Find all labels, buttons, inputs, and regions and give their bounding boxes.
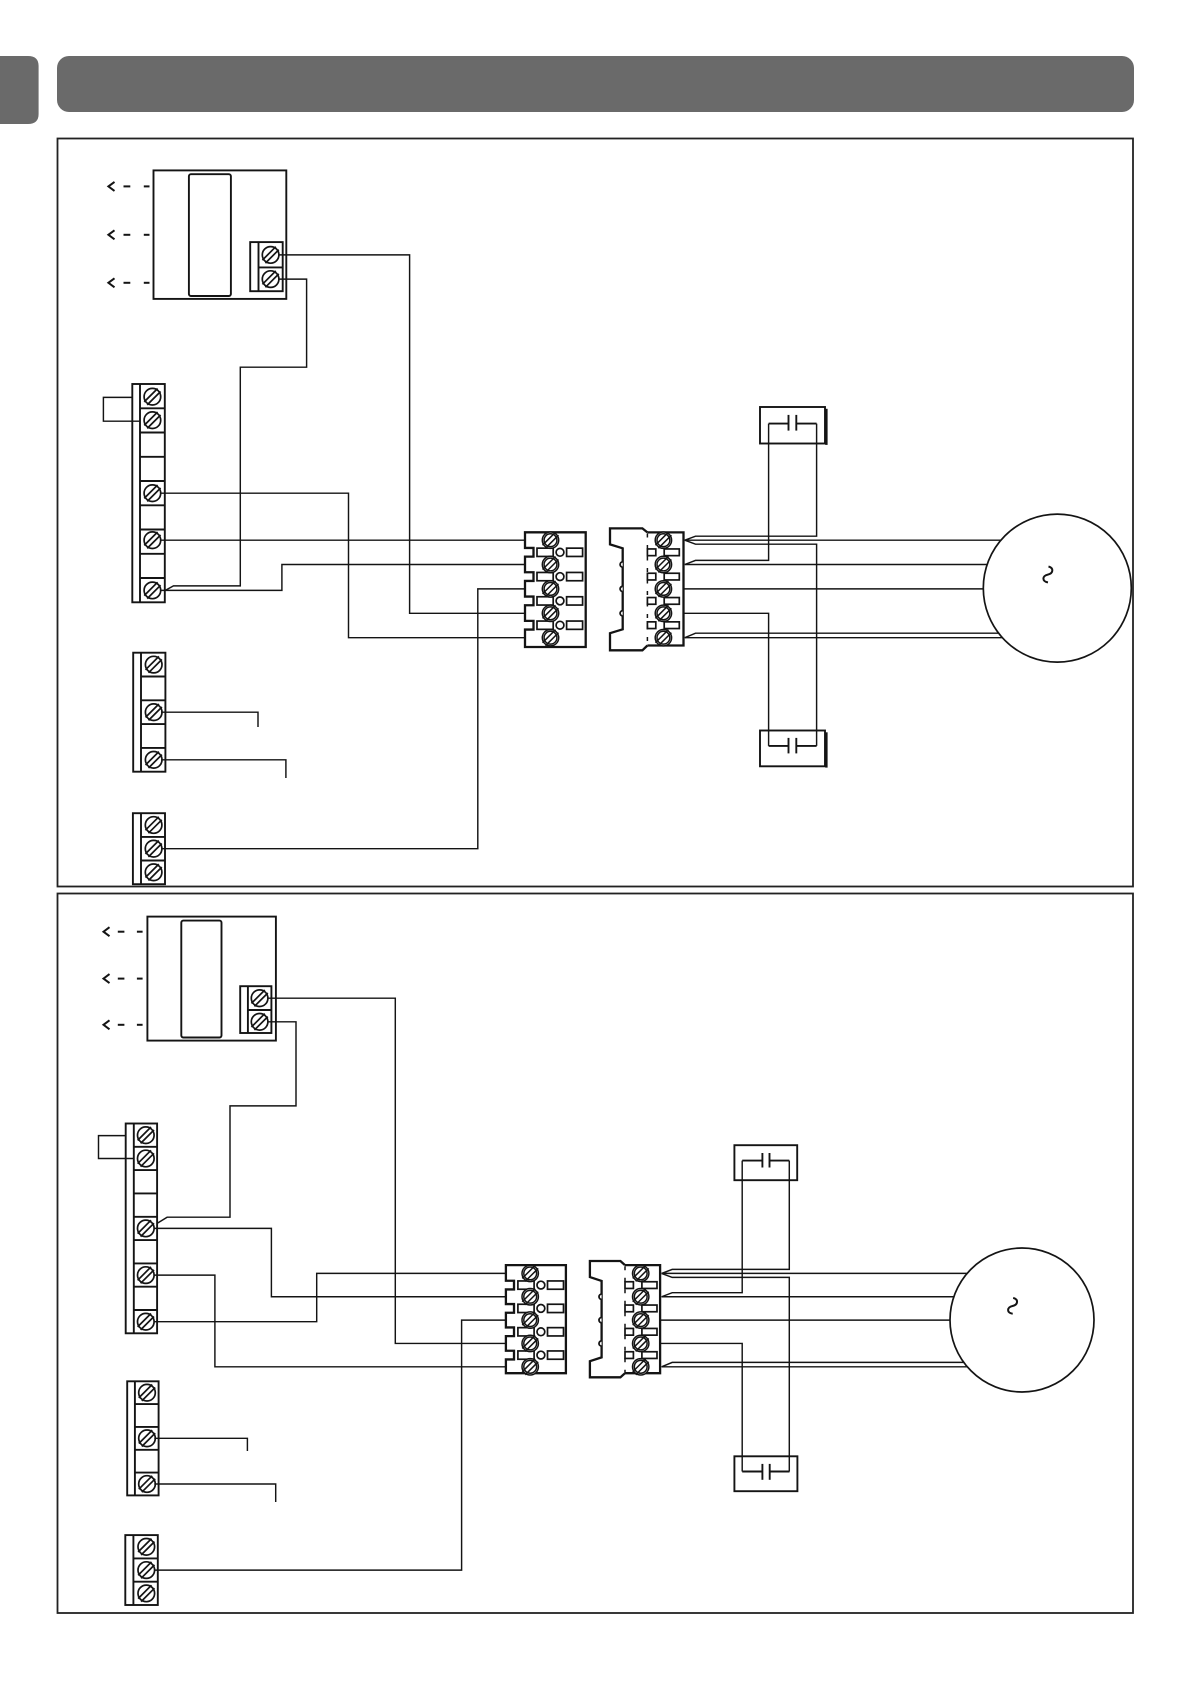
CN2 pin bump 2	[620, 586, 623, 591]
connector CN4 (male housing tongue)	[590, 1261, 625, 1377]
control board U2	[147, 917, 276, 1041]
screw TB8-2	[138, 1562, 155, 1579]
CN3 latch window 4	[518, 1351, 564, 1359]
motor M2 AC symbol	[1008, 1298, 1017, 1314]
input arrow 1	[108, 182, 114, 191]
CN4 latch window 2	[625, 1305, 657, 1312]
wire TB5-2 to TB6-3	[157, 1022, 296, 1224]
capacitor C2 box	[760, 731, 825, 767]
terminal strip TB6 (main, 9 cells)	[126, 1124, 157, 1334]
screw TB3-1	[145, 656, 162, 673]
wire CN2-2 fork upper to capacitor C1	[685, 424, 769, 565]
dashed lead 2	[124, 234, 150, 236]
screw TB5-1	[251, 990, 268, 1007]
capacitor C3 box	[734, 1145, 797, 1180]
screw CN4-4	[633, 1335, 649, 1351]
screw CN2-4	[655, 605, 671, 621]
screw TB4-2	[145, 840, 162, 857]
screw TB1-2	[262, 271, 279, 288]
CN2 latch window 2	[647, 573, 679, 580]
wire stub TB3-3	[161, 760, 286, 778]
wire CN2-5 fork upper to motor M1	[685, 633, 999, 638]
screw CN3-4	[522, 1335, 538, 1351]
connector CN2 (male housing tongue)	[610, 528, 647, 650]
screw CN4-1	[633, 1265, 649, 1281]
wire TB2-3 to CN1-5	[161, 493, 525, 638]
wire CN4-1 fork upper to capacitor C3	[662, 1161, 790, 1274]
wire CN4-1 to motor M2	[662, 1272, 968, 1274]
screw TB8-1	[138, 1539, 155, 1556]
screw CN1-5	[542, 630, 558, 646]
CN4 body outline	[625, 1265, 660, 1373]
panel 2 frame	[58, 894, 1134, 1614]
jumper link on TB2-1/TB2-2	[103, 397, 140, 421]
CN4 latch window 4	[625, 1352, 657, 1359]
wire stub TB3-2	[161, 712, 258, 727]
wire CN4-4 to capacitor C4	[660, 1343, 742, 1471]
screw TB4-3	[145, 864, 162, 881]
wire CN2-3 to motor M1	[684, 588, 984, 590]
input arrow 3	[108, 278, 114, 287]
input arrow 4	[104, 927, 110, 936]
wire CN2-1 fork upper to capacitor C1	[685, 424, 817, 541]
connector CN3 (female housing)	[506, 1265, 566, 1373]
wire TB6-3 to CN3-2	[154, 1228, 506, 1296]
terminal strip TB4 (3 cells)	[133, 813, 165, 884]
terminal block TB5 (2-screw) on U2	[240, 986, 271, 1033]
wire CN2-4 to capacitor C2	[684, 613, 769, 746]
CN3 latch window 1	[518, 1281, 564, 1289]
wire CN4-3 to motor M2	[660, 1319, 950, 1321]
CN1 latch window 3	[537, 597, 583, 605]
screw TB6-2	[138, 1150, 155, 1167]
panel 1 frame	[58, 139, 1134, 887]
jumper link on TB6-1/TB6-2	[99, 1136, 134, 1159]
capacitor C1 symbol	[769, 415, 817, 431]
CN1 latch window 2	[537, 572, 583, 580]
screw TB2-5	[144, 582, 161, 599]
screw CN4-2	[633, 1289, 649, 1305]
screw TB6-5	[138, 1313, 155, 1330]
screw TB7-3	[139, 1476, 156, 1493]
capacitor C2 box shadow	[825, 732, 827, 767]
screw TB6-1	[138, 1127, 155, 1144]
wire CN4-2 fork upper to capacitor C3	[662, 1161, 743, 1297]
motor M1 AC symbol	[1043, 567, 1052, 583]
wire TB8-2 to CN3-3	[155, 1320, 506, 1570]
dashed lead 1	[124, 185, 150, 187]
wire TB5-1 to CN3-4	[268, 998, 506, 1343]
wire CN4-1 fork lower to capacitor C4	[662, 1273, 790, 1471]
screw CN4-5	[633, 1359, 649, 1375]
capacitor C1 box	[760, 407, 825, 444]
header title bar	[57, 56, 1134, 112]
capacitor C3 symbol	[742, 1153, 789, 1168]
wire CN2-1 to motor M1	[685, 539, 1001, 541]
CN4 pin bump 1	[599, 1294, 602, 1299]
screw CN3-5	[522, 1359, 538, 1375]
screw TB2-4	[144, 532, 161, 549]
terminal block TB1 (2-screw) on U1	[250, 242, 283, 291]
CN4 hidden edge (dashed)	[624, 1266, 626, 1373]
screw CN2-3	[655, 581, 671, 597]
screw TB2-1	[144, 388, 161, 405]
display module on U2	[181, 921, 221, 1038]
wire TB6-5 to CN3-1	[154, 1273, 506, 1321]
screw TB2-2	[144, 412, 161, 429]
wire TB2-5 to CN1-2	[161, 565, 525, 591]
screw TB2-3	[144, 485, 161, 502]
dashed lead 6	[118, 1024, 143, 1026]
wire stub TB7-2	[154, 1438, 247, 1451]
screw TB1-1	[262, 247, 279, 264]
screw CN3-2	[522, 1289, 538, 1305]
wire CN2-5 to motor M1	[685, 637, 1002, 639]
input arrow 6	[104, 1020, 110, 1029]
screw TB5-2	[251, 1014, 268, 1031]
screw CN1-4	[542, 605, 558, 621]
dashed lead 5	[118, 978, 143, 980]
input arrow 5	[104, 974, 110, 983]
screw CN1-1	[542, 532, 558, 548]
wire stub TB7-3	[154, 1484, 275, 1502]
screw CN2-2	[655, 556, 671, 572]
wire CN4-5 fork upper to motor M2	[662, 1362, 964, 1366]
input arrow 2	[108, 230, 114, 239]
screw TB6-3	[138, 1220, 155, 1237]
header section tab	[0, 56, 39, 124]
CN4 latch window 1	[625, 1282, 657, 1289]
terminal strip TB3 (5 cells)	[133, 653, 165, 772]
wire TB4-2 to CN1-3	[162, 589, 525, 849]
screw TB3-2	[145, 704, 162, 721]
motor M1	[983, 514, 1131, 662]
screw CN4-3	[633, 1312, 649, 1328]
CN2 pin bump 1	[620, 562, 623, 567]
dashed lead 4	[118, 931, 143, 933]
screw CN3-1	[522, 1265, 538, 1281]
control board U1	[154, 170, 287, 299]
screw CN1-3	[542, 581, 558, 597]
screw TB4-1	[145, 817, 162, 834]
CN3 latch window 3	[518, 1328, 564, 1336]
CN2 latch window 4	[647, 622, 679, 629]
wire TB6-4 to CN3-5	[154, 1275, 506, 1367]
CN3 latch window 2	[518, 1304, 564, 1312]
wire CN2-1 fork lower to capacitor C2	[685, 540, 817, 746]
display module on U1	[189, 174, 231, 296]
screw TB7-2	[139, 1430, 156, 1447]
wire TB1-1 to CN1-4	[279, 255, 525, 613]
CN1 latch window 1	[537, 548, 583, 556]
wire CN4-2 to motor M2	[662, 1296, 954, 1298]
CN4 pin bump 2	[599, 1318, 602, 1323]
capacitor C2 symbol	[769, 738, 817, 754]
CN2 hidden edge (dashed)	[646, 534, 648, 646]
dashed lead 3	[124, 282, 150, 284]
screw CN2-1	[655, 532, 671, 548]
capacitor C4 symbol	[742, 1464, 789, 1480]
CN2 body outline	[647, 532, 683, 645]
terminal strip TB2 (main, 9 cells)	[132, 384, 165, 602]
screw TB7-1	[139, 1384, 156, 1401]
CN2 latch window 3	[647, 598, 679, 605]
terminal strip TB7 (5 cells)	[127, 1381, 158, 1495]
wire TB1-2 to TB2-5	[165, 279, 307, 590]
wire TB2-4 to CN1-1	[161, 539, 525, 541]
capacitor C4 box	[734, 1456, 797, 1491]
terminal strip TB8 (3 cells)	[125, 1535, 158, 1605]
connector CN1 (female housing)	[525, 532, 586, 647]
screw CN3-3	[522, 1312, 538, 1328]
screw TB6-4	[138, 1267, 155, 1284]
CN2 pin bump 3	[620, 611, 623, 616]
CN4 pin bump 3	[599, 1341, 602, 1346]
wire CN4-5 to motor M2	[662, 1366, 968, 1368]
CN4 latch window 3	[625, 1328, 657, 1335]
wire CN2-2 to motor M1	[685, 564, 987, 566]
screw CN2-5	[655, 630, 671, 646]
CN1 latch window 4	[537, 621, 583, 629]
CN2 latch window 1	[647, 549, 679, 556]
motor M2	[950, 1248, 1094, 1392]
capacitor C1 box shadow	[825, 409, 827, 445]
screw TB8-3	[138, 1585, 155, 1602]
screw CN1-2	[542, 556, 558, 572]
screw TB3-3	[145, 752, 162, 769]
